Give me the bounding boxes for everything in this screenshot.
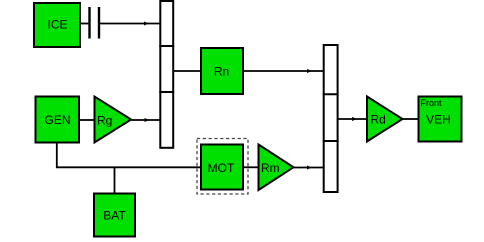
svg-text:Rm: Rm xyxy=(261,161,280,175)
block VEH xyxy=(419,97,462,142)
gear Rg xyxy=(95,97,132,143)
svg-text:BAT: BAT xyxy=(103,209,126,223)
selection frame around MOT xyxy=(197,139,248,195)
wire ICE to clutch xyxy=(81,23,89,25)
wire Rg to PGS1 xyxy=(131,118,160,122)
wire Rn to PGS2 xyxy=(243,69,323,73)
svg-text:MOT: MOT xyxy=(208,161,235,175)
wire PGS1 to Rn xyxy=(174,70,201,72)
wire Rm to PGS2 xyxy=(294,166,324,170)
gear Rm xyxy=(259,145,294,191)
svg-text:VEH: VEH xyxy=(426,112,451,126)
block ICE xyxy=(34,3,80,47)
wire Rd to VEH xyxy=(403,118,419,120)
svg-text:Rn: Rn xyxy=(214,65,229,79)
svg-text:Rg: Rg xyxy=(97,114,112,128)
wire PGS2 to Rd xyxy=(338,117,367,121)
svg-text:Front: Front xyxy=(421,98,443,108)
wire GEN to bus junction xyxy=(57,144,201,168)
svg-text:ICE: ICE xyxy=(47,18,67,32)
svg-text:GEN: GEN xyxy=(44,113,70,127)
gear-ratio block Rn xyxy=(201,48,243,94)
wire MOT to Rm xyxy=(243,166,259,168)
gear Rd xyxy=(367,97,403,142)
wire clutch to PGS1 xyxy=(100,22,160,26)
wire bus to BAT xyxy=(114,167,116,194)
wire GEN to Rg xyxy=(80,119,94,121)
block BAT xyxy=(94,194,135,237)
gearbox PGS2 xyxy=(323,45,339,192)
svg-text:Rd: Rd xyxy=(371,112,386,126)
block MOT xyxy=(201,145,243,190)
gearbox PGS1 xyxy=(159,1,174,148)
clutch xyxy=(90,7,100,39)
block GEN xyxy=(36,97,80,143)
